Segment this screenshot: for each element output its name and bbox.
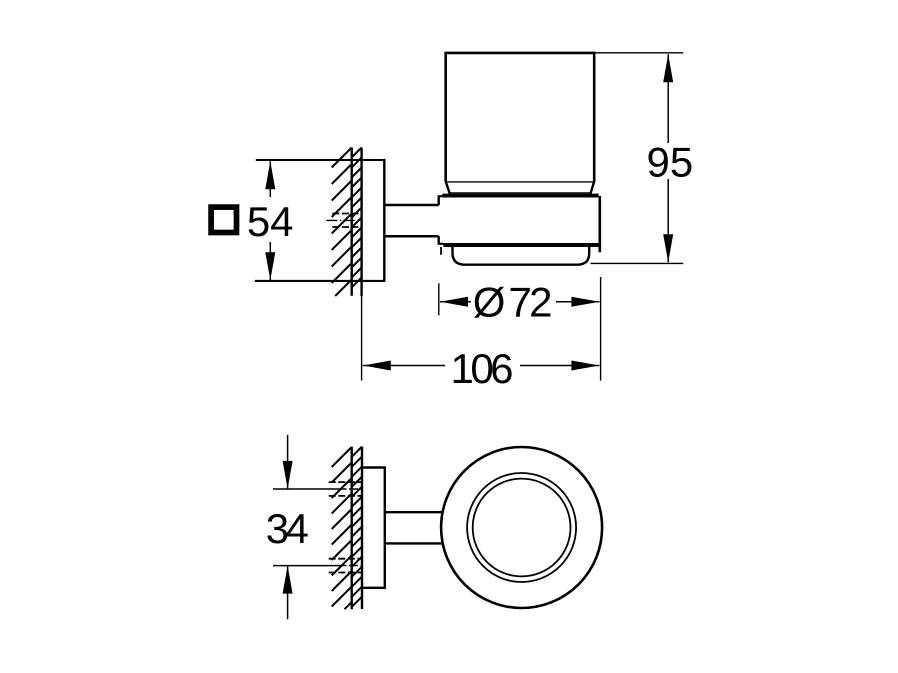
svg-text:95: 95 <box>647 139 694 186</box>
svg-text:54: 54 <box>247 198 294 245</box>
svg-text:Ø: Ø <box>473 279 506 326</box>
svg-text:106: 106 <box>451 345 514 392</box>
svg-text:34: 34 <box>266 505 309 552</box>
svg-text:72: 72 <box>509 279 553 326</box>
